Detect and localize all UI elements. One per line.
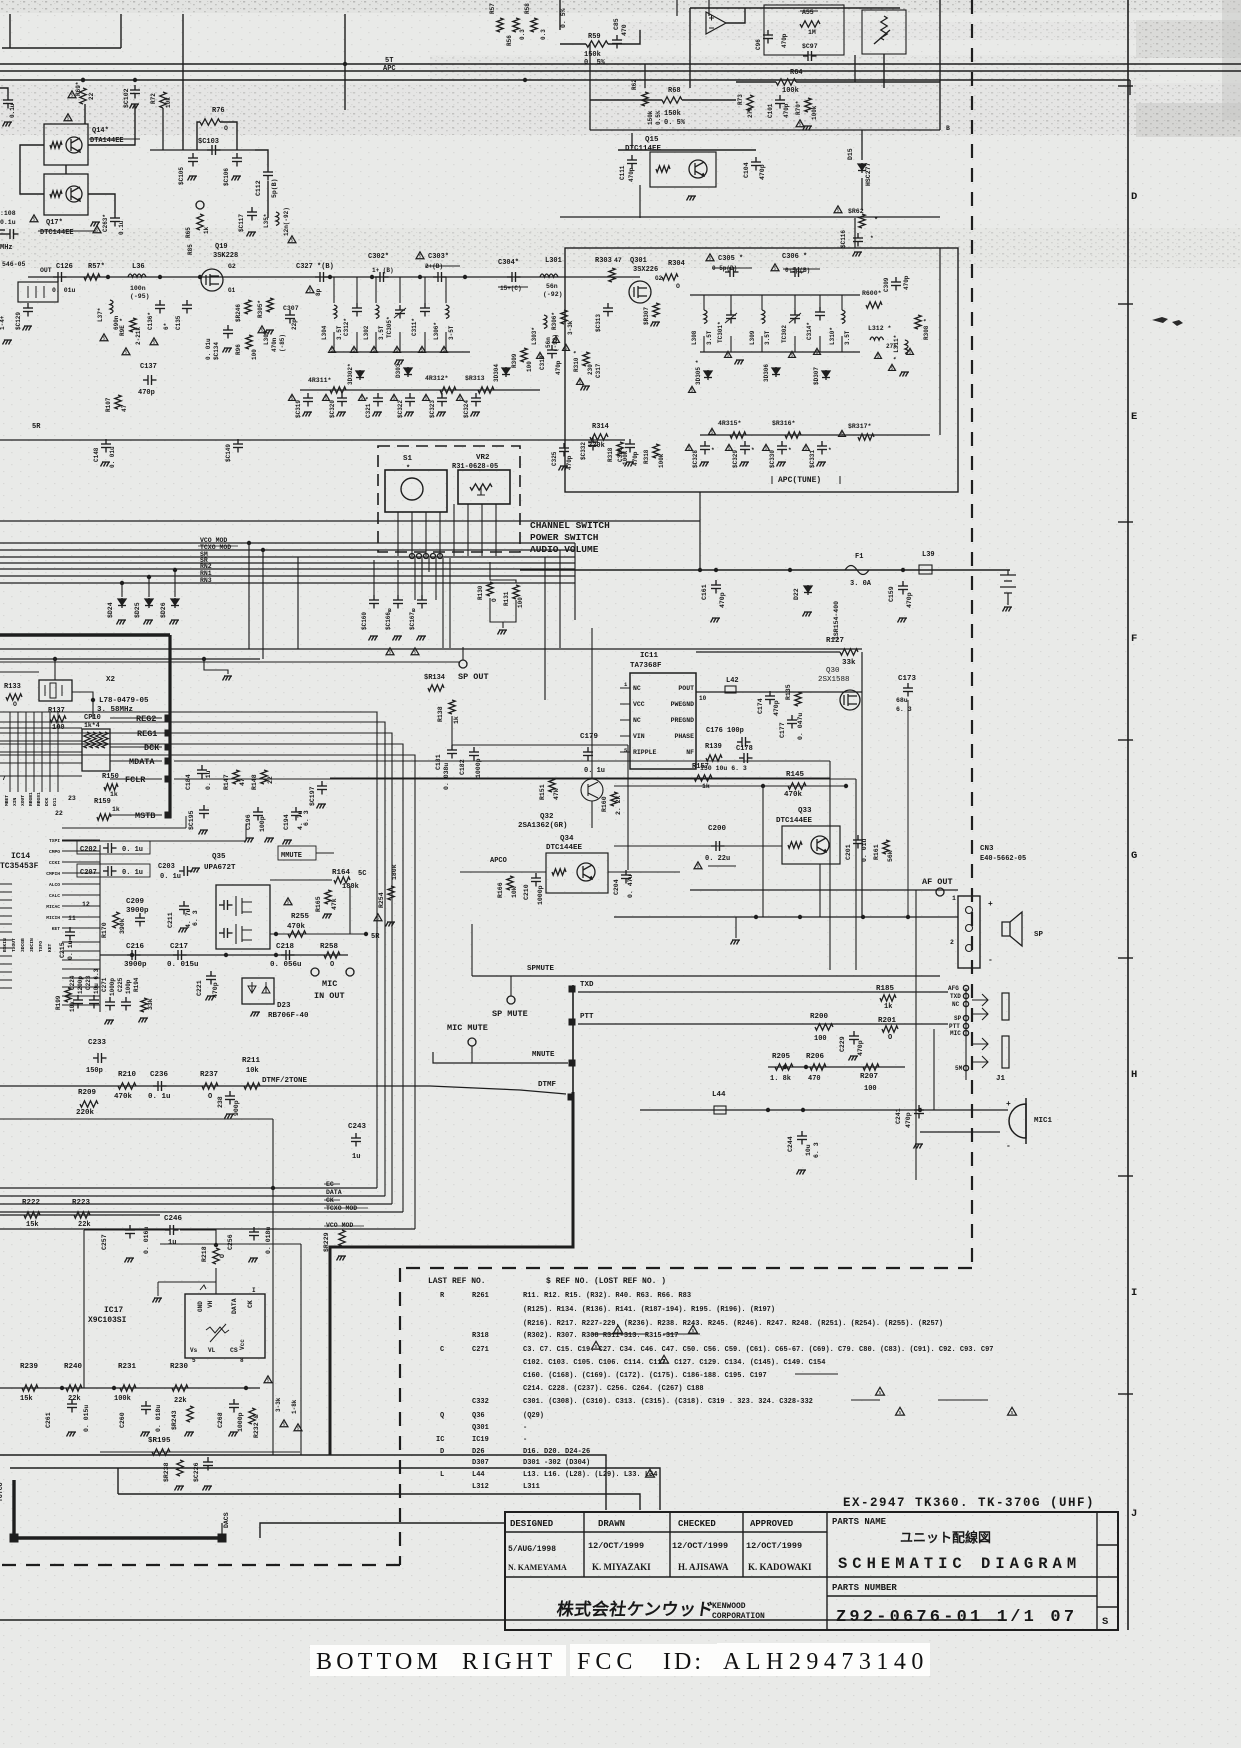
- svg-text:CCKI: CCKI: [49, 860, 60, 866]
- wire c246 right: [180, 1230, 216, 1245]
- warning triangle C305: [706, 254, 714, 261]
- wire cp10 feed 2: [0, 740, 82, 742]
- inductor L302: [376, 305, 379, 319]
- wire RF rail: [28, 276, 640, 278]
- wire stair bundle 4: [0, 744, 403, 1212]
- resistor R222: [24, 1212, 40, 1218]
- wire lad2 stub 795: [794, 295, 796, 310]
- svg-text:R161: R161: [873, 844, 880, 860]
- wire ic14 stub R3: [62, 959, 100, 961]
- svg-text:47k: 47k: [331, 898, 338, 910]
- wire S1 drop 6: [449, 558, 451, 648]
- svg-text:C210: C210: [523, 884, 530, 900]
- svg-text:5: 5: [727, 353, 730, 359]
- svg-text:5: 5: [688, 446, 691, 452]
- wire vdo rail: [62, 840, 246, 842]
- capacitor SC105: [188, 153, 198, 167]
- svg-text:5R: 5R: [371, 933, 380, 941]
- wire filter2 top rail: [690, 294, 860, 296]
- svg-text:R254: R254: [378, 892, 385, 908]
- wire APC bus: [0, 79, 1130, 81]
- wire ic14 pin CMPO: [62, 850, 100, 852]
- junction r255: [274, 932, 278, 936]
- junction f4: [463, 275, 467, 279]
- resistor R56: [513, 18, 519, 32]
- svg-text:5: 5: [791, 353, 794, 359]
- svg-text:R150: R150: [102, 773, 119, 781]
- capacitor C217: [173, 950, 187, 960]
- inductor L310*: [842, 310, 845, 324]
- resistor R138: [449, 700, 455, 714]
- diode 3D307: [822, 370, 830, 380]
- ground C221: [206, 996, 216, 1001]
- svg-text:MIC1: MIC1: [1034, 1117, 1053, 1125]
- junction bus D: [133, 78, 137, 82]
- svg-text:5: 5: [33, 217, 36, 223]
- capacitor C201: [853, 835, 863, 849]
- wire diode row2 rail: [700, 434, 930, 436]
- junction r205a: [783, 1065, 787, 1069]
- svg-text:C173: C173: [898, 675, 917, 683]
- svg-text:4. 7u: 4. 7u: [185, 908, 192, 928]
- junction r205b: [804, 1065, 808, 1069]
- wire x2 top: [54, 659, 56, 680]
- svg-text:C307: C307: [283, 305, 299, 312]
- ground C196 a: [245, 838, 255, 843]
- ground C321 *: [373, 412, 383, 417]
- svg-text:$C313: $C313: [595, 314, 602, 332]
- svg-text:470p: 470p: [759, 164, 766, 180]
- box C207: [77, 864, 150, 877]
- svg-text:C160. (C168). (C169). (C172).: C160. (C168). (C169). (C172). (C175). C1…: [523, 1372, 767, 1380]
- svg-text:470p: 470p: [783, 103, 790, 118]
- svg-text:C209: C209: [126, 898, 145, 906]
- capacitor $C324: [471, 393, 481, 407]
- wire bus pll drop 3: [297, 557, 299, 649]
- inductor L44: [714, 1106, 726, 1114]
- junction $D26: [173, 568, 177, 572]
- svg-text:$C166: $C166: [385, 612, 392, 630]
- wire q34 out: [608, 871, 680, 873]
- capacitor SC332: [588, 437, 598, 451]
- svg-text:5: 5: [595, 1344, 598, 1350]
- svg-text:1000p: 1000p: [237, 1412, 244, 1432]
- capacitor C224: [73, 995, 83, 1009]
- svg-text:470k: 470k: [287, 923, 306, 931]
- svg-text:12/OCT/1999: 12/OCT/1999: [746, 1541, 802, 1551]
- svg-text:TXOUT: TXOUT: [11, 938, 17, 952]
- svg-text:L312 *: L312 *: [868, 325, 892, 332]
- wire ic14 stub R2: [62, 950, 100, 952]
- wire mid v1: [591, 628, 593, 745]
- resistor R231: [120, 1385, 136, 1391]
- svg-text:+: +: [1006, 1100, 1011, 1109]
- resistor R133: [6, 694, 22, 700]
- svg-text:L302: L302: [363, 325, 370, 340]
- resistor R303: [609, 268, 615, 282]
- svg-text:C221: C221: [196, 980, 203, 996]
- ground SC102: [130, 104, 140, 109]
- pad MDATA: [165, 758, 172, 765]
- inductor L37: [110, 300, 113, 314]
- svg-text:10k: 10k: [69, 1001, 76, 1012]
- resistor SR62: [859, 214, 865, 228]
- wire mmute-r164: [316, 852, 334, 854]
- wire S1 drop 1: [414, 558, 416, 600]
- ground filter mid: [395, 360, 405, 365]
- svg-text:RIGHT: RIGHT: [462, 1649, 556, 1675]
- resistor R58: [531, 18, 537, 32]
- J1 pin slot lower: [1002, 1036, 1009, 1068]
- diode pair D23: [248, 982, 270, 993]
- inductor L308: [704, 310, 707, 324]
- svg-text:470p: 470p: [628, 167, 635, 182]
- inductor L42: [725, 686, 736, 693]
- wire $D25 up: [148, 577, 150, 597]
- wire C112 link: [255, 150, 268, 167]
- svg-text:XOUT: XOUT: [20, 795, 26, 806]
- wire drop 273: [272, 1119, 274, 1455]
- svg-text:10k: 10k: [511, 886, 518, 898]
- svg-text:C177: C177: [779, 722, 786, 738]
- wire dtmf rail: [0, 1086, 566, 1094]
- resistor Q17 base: [50, 191, 62, 197]
- wire S1 lead 7: [481, 504, 483, 556]
- svg-text:R239: R239: [20, 1363, 39, 1371]
- svg-text:REG2: REG2: [136, 714, 156, 724]
- svg-text:(-92): (-92): [552, 334, 559, 352]
- ground SC195: [199, 830, 209, 835]
- svg-text:5: 5: [765, 446, 768, 452]
- svg-text:1+ (B): 1+ (B): [372, 267, 394, 274]
- box CP10: [82, 729, 110, 771]
- svg-text:Q30: Q30: [826, 667, 840, 675]
- svg-text:C207: C207: [80, 869, 97, 877]
- wire $C166 up: [397, 560, 399, 595]
- wire lad1 stub b 357: [356, 332, 358, 352]
- svg-text:Q14*: Q14*: [92, 127, 109, 135]
- capacitor C211: [179, 901, 189, 915]
- svg-text:CMPO: CMPO: [49, 849, 60, 855]
- svg-text:DCK: DCK: [144, 743, 160, 753]
- wire spout drop: [462, 647, 464, 660]
- svg-text:100k: 100k: [114, 1395, 131, 1403]
- svg-text:5: 5: [709, 256, 712, 262]
- svg-text:C321 *: C321 *: [365, 396, 372, 418]
- capacitor C302: [375, 272, 389, 282]
- svg-text:O: O: [13, 701, 17, 708]
- svg-text:1: 1: [952, 895, 956, 902]
- svg-text:390k: 390k: [119, 918, 126, 934]
- wire lad2 stub b 762: [761, 336, 763, 352]
- wire Q14 to bus: [84, 104, 86, 124]
- resistor R59: [586, 41, 608, 47]
- ground D23: [251, 1012, 261, 1017]
- svg-text:MNUTE: MNUTE: [532, 1051, 555, 1059]
- border tick 1: [1118, 85, 1133, 87]
- wire lad2 stub 842: [841, 295, 843, 310]
- capacitor C311*: [420, 303, 430, 317]
- svg-text:100p: 100p: [259, 816, 266, 832]
- svg-text:3DCIN: 3DCIN: [29, 938, 35, 952]
- warning triangle C314*: [814, 348, 821, 354]
- svg-text:R57*: R57*: [88, 263, 105, 271]
- svg-text:IC17: IC17: [104, 1306, 123, 1315]
- svg-text:100k: 100k: [658, 453, 665, 468]
- svg-text:1M: 1M: [808, 29, 816, 36]
- svg-text:MSTB: MSTB: [135, 811, 155, 821]
- fet Q30: [840, 690, 860, 710]
- title block column lines: [584, 1512, 1097, 1630]
- VR2 wiper: [477, 487, 485, 495]
- svg-text:R57: R57: [489, 3, 496, 14]
- junction mic1: [130, 953, 134, 957]
- svg-text:3D305 *: 3D305 *: [695, 360, 702, 385]
- resistor VR2: [470, 484, 492, 490]
- svg-text:0. 047u: 0. 047u: [797, 713, 804, 740]
- box xtal filter: [18, 282, 58, 302]
- svg-text:$R313: $R313: [465, 375, 485, 382]
- resistor R200: [815, 1024, 833, 1030]
- strikethrough C306 val: [783, 268, 820, 270]
- capacitor C148: [101, 439, 111, 453]
- ground C203: [191, 868, 201, 873]
- svg-text:$C167: $C167: [409, 612, 416, 630]
- svg-text:1000p: 1000p: [537, 885, 544, 905]
- wire c173 down: [907, 700, 909, 917]
- resistor R62: [642, 92, 648, 106]
- svg-text:L36: L36: [132, 263, 145, 271]
- wire lad1 stub 400: [399, 277, 401, 303]
- warning triangle L35: [288, 236, 296, 243]
- svg-text:C214. C228. (C237). C256. C264: C214. C228. (C237). C256. C264. (C267) C…: [523, 1385, 704, 1393]
- svg-text:56k: 56k: [887, 850, 894, 862]
- svg-text:D: D: [440, 1448, 444, 1456]
- warning triangle R70: [796, 120, 804, 127]
- svg-text:0. 1u: 0. 1u: [584, 767, 605, 775]
- svg-text:R209: R209: [78, 1089, 97, 1097]
- svg-text:R131: R131: [503, 591, 510, 606]
- svg-text:5: 5: [459, 396, 462, 402]
- ground battery: [1003, 607, 1013, 612]
- terminal mic in: [311, 968, 319, 976]
- capacitor SC195: [199, 805, 209, 819]
- warning triangle TC305*: [394, 346, 401, 352]
- warning triangle L37: [100, 334, 108, 341]
- svg-text:10k: 10k: [165, 97, 172, 108]
- svg-text:C194: C194: [283, 814, 290, 830]
- wire frame 3: [118, 1494, 640, 1510]
- svg-text:C303*: C303*: [428, 253, 449, 261]
- warning triangle 3C331: [803, 444, 810, 450]
- wire ic14 stub L8: [0, 939, 12, 941]
- junction R69: [81, 78, 85, 82]
- wire node rail 150: [150, 149, 255, 151]
- ground filter2: [735, 360, 745, 365]
- svg-text:VCO MOD: VCO MOD: [200, 537, 227, 544]
- junction r145b: [844, 784, 848, 788]
- wire long y130: [590, 129, 940, 131]
- wire $D24 up: [121, 583, 123, 597]
- border tick 2: [1118, 303, 1133, 305]
- svg-text:R135: R135: [785, 684, 792, 700]
- resistor CP10 r1: [84, 732, 90, 748]
- warning triangle C312*: [351, 346, 358, 352]
- svg-text:22p: 22p: [291, 319, 298, 330]
- svg-text:3SX226: 3SX226: [633, 266, 658, 274]
- svg-text:FCC: FCC: [577, 1649, 637, 1675]
- capacitor C243: [351, 1133, 361, 1147]
- ground $C160: [369, 636, 379, 641]
- svg-text:R305*: R305*: [257, 300, 264, 318]
- warning triangle $C320: [323, 394, 330, 400]
- svg-text:5: 5: [728, 446, 731, 452]
- svg-text:1000p: 1000p: [109, 978, 116, 996]
- svg-text:RB706F-40: RB706F-40: [268, 1012, 309, 1020]
- svg-text:$C331: $C331: [809, 450, 816, 468]
- svg-text:100: 100: [814, 1035, 827, 1043]
- resistor SR195: [152, 1449, 170, 1455]
- ground SR238: [175, 1486, 185, 1491]
- wire q30 vert: [861, 652, 863, 917]
- junction bus C: [81, 78, 85, 82]
- resistor R255: [288, 931, 306, 937]
- svg-text:O: O: [491, 598, 498, 602]
- resistor in trimmer box: [881, 16, 887, 40]
- svg-text:C204: C204: [613, 879, 620, 895]
- svg-text:C332: C332: [472, 1398, 489, 1406]
- svg-text:0. 01u: 0. 01u: [109, 446, 116, 468]
- svg-text:C: C: [440, 1346, 444, 1354]
- ground mid bus: [223, 676, 233, 681]
- capacitor SC116: [853, 233, 863, 247]
- svg-text:OUT: OUT: [40, 267, 52, 274]
- resistor R65: [197, 214, 203, 230]
- wire stair bundle 3: [0, 733, 392, 1204]
- transistor Q15: [689, 160, 707, 178]
- svg-text:0. 015u: 0. 015u: [167, 961, 199, 969]
- svg-text:R165: R165: [315, 896, 322, 912]
- svg-text:R139: R139: [705, 743, 722, 751]
- pad TXD: [569, 986, 576, 993]
- junction sp1: [754, 915, 758, 919]
- ground R70: [803, 126, 813, 131]
- warning triangle L303: [537, 352, 544, 358]
- ref table triangle 1012: [1008, 1407, 1017, 1415]
- ground SC197: [317, 804, 327, 809]
- capacitor SC313: [603, 303, 613, 317]
- svg-text:5: 5: [805, 446, 808, 452]
- svg-text:11: 11: [68, 915, 76, 922]
- fet pair Q35: [236, 896, 252, 916]
- svg-text:(-95): (-95): [130, 293, 150, 300]
- svg-text:100n: 100n: [130, 285, 146, 292]
- resistor R96: [246, 335, 252, 349]
- junction 659b: [202, 657, 206, 661]
- svg-text:12/OCT/1999: 12/OCT/1999: [588, 1541, 644, 1551]
- svg-text:5: 5: [373, 348, 376, 354]
- svg-text:22k: 22k: [78, 1221, 91, 1229]
- junction rf3: [198, 275, 202, 279]
- svg-text:10u 6.3: 10u 6.3: [93, 968, 100, 994]
- resistor 3R316: [785, 432, 801, 438]
- svg-text:3. 0A: 3. 0A: [850, 580, 872, 588]
- svg-text:C314*: C314*: [806, 322, 813, 340]
- svg-text:12: 12: [82, 901, 90, 908]
- svg-text:VCC: VCC: [633, 701, 645, 708]
- wire r205 rail: [768, 1066, 905, 1068]
- wire lad2 stub 820: [819, 295, 821, 310]
- strikethrough EC: [324, 1183, 340, 1185]
- svg-text:R310 *: R310 *: [573, 350, 580, 372]
- svg-text:0. 5%: 0. 5%: [560, 8, 567, 28]
- wire battery drop: [1007, 570, 1009, 575]
- wire ic14 stub R6: [62, 986, 100, 988]
- box Q14: [44, 124, 88, 165]
- svg-text:PREGND: PREGND: [671, 717, 695, 724]
- capacitor C255: [249, 1227, 259, 1241]
- capacitor SC102: [130, 85, 140, 99]
- svg-text:KET: KET: [47, 943, 53, 952]
- svg-text:R240: R240: [64, 1363, 83, 1371]
- diode D22: [804, 585, 812, 595]
- junction sp4: [906, 915, 910, 919]
- wire ic14 pin KET: [62, 927, 100, 929]
- svg-text:5: 5: [389, 650, 392, 656]
- warning triangle 3R317: [839, 430, 846, 436]
- svg-text:$C319: $C319: [295, 400, 302, 418]
- svg-text:C244: C244: [787, 1136, 794, 1152]
- ground Q17: [91, 222, 101, 227]
- wire top stub right: [344, 14, 346, 110]
- ground C229: [849, 1056, 859, 1061]
- svg-text:23: 23: [68, 795, 76, 802]
- svg-text:0.1u: 0.1u: [0, 219, 16, 226]
- svg-text:-: -: [1006, 1142, 1011, 1151]
- svg-text:D303: D303: [395, 363, 402, 378]
- svg-text:C85: C85: [613, 18, 620, 30]
- svg-text:R258: R258: [320, 943, 339, 951]
- wire ic14 stub R7: [62, 995, 100, 997]
- ground SC105: [188, 176, 198, 181]
- svg-text:R69*: R69*: [75, 82, 82, 96]
- wire long 1244: [160, 1243, 301, 1245]
- svg-text:6. 3: 6. 3: [813, 1142, 820, 1158]
- svg-text:NF: NF: [686, 749, 694, 756]
- svg-text:D15: D15: [847, 148, 854, 160]
- diode 3D302: [356, 370, 364, 380]
- ground 3C328: [700, 462, 710, 467]
- svg-text:L308: L308: [691, 330, 698, 345]
- svg-text:56n: 56n: [546, 283, 558, 290]
- resistor R318b: [617, 442, 623, 456]
- svg-text:SP MUTE: SP MUTE: [492, 1009, 528, 1019]
- svg-text:BOTTOM: BOTTOM: [316, 1649, 442, 1675]
- svg-text:FCLR: FCLR: [125, 775, 146, 785]
- wire lad1 stub 357: [356, 277, 358, 303]
- svg-text:5: 5: [396, 348, 399, 354]
- wire J1 pin column: [965, 988, 967, 1080]
- svg-text:S1: S1: [403, 455, 413, 463]
- warning triangle R255: [284, 898, 292, 905]
- svg-text:I: I: [1131, 1287, 1137, 1299]
- wire C108 stub: [0, 233, 5, 235]
- svg-text:1u: 1u: [352, 1153, 360, 1161]
- svg-text:1SR154-400: 1SR154-400: [833, 601, 840, 640]
- wire S1 lead 6: [467, 504, 469, 556]
- svg-text:470p: 470p: [857, 1040, 864, 1056]
- svg-text:5C: 5C: [358, 870, 366, 878]
